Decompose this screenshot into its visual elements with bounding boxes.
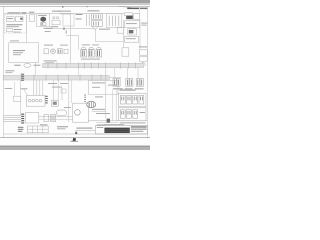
junction dot node A [63, 28, 65, 30]
bottom bus wires right [88, 120, 147, 122]
breaker CB1 upper box [125, 13, 133, 16]
relay K2 title [88, 10, 100, 11]
relay bank feed wires [34, 80, 43, 95]
battery cell A2 [127, 95, 132, 104]
rocker switch S2 [15, 17, 23, 22]
center area note rows [48, 83, 57, 84]
breaker CB1 dark body [126, 16, 133, 20]
breaker CB1 lower box [124, 21, 139, 28]
small module left of fuse [117, 27, 124, 33]
note text above operator panel [8, 12, 21, 13]
sheet bottom border [0, 137, 150, 139]
text rows near generator [95, 96, 103, 97]
center module text row1 [92, 82, 105, 83]
junction box bottom left [25, 113, 38, 123]
battery cell A1 [120, 95, 125, 104]
center vertical wires [53, 80, 71, 122]
ECM text line 1 [13, 50, 25, 51]
relay K2 label rows [76, 14, 83, 15]
key switch S1 [6, 17, 14, 22]
solenoid labels above [82, 44, 90, 45]
bottom bus wires left [4, 115, 21, 121]
right mid module box [122, 48, 129, 56]
ground lug [107, 119, 110, 123]
note text right of breaker [141, 23, 147, 24]
note text above lower harness [5, 70, 14, 71]
border zone tick A [62, 6, 64, 8]
panel drop wire [26, 15, 28, 43]
indicator lamp DS1 [20, 18, 22, 20]
panel text row 3 [14, 29, 22, 30]
title block right text rows [131, 126, 147, 127]
right sensor symbol [141, 63, 146, 66]
leader line [24, 90, 28, 96]
wire to solenoids [95, 41, 122, 43]
harness band lower [4, 75, 110, 80]
note text bottom center-left [57, 126, 68, 127]
solenoid L3 [96, 49, 102, 57]
panel text row 4 [13, 31, 21, 34]
battery box lower [119, 108, 146, 121]
solenoid caption [81, 59, 100, 60]
dark tick bottom center [75, 132, 77, 134]
leader note text [20, 88, 27, 89]
disconnect switch S4 [29, 15, 34, 22]
bottom connector dark dashes [21, 114, 24, 124]
sheet left border [2, 6, 4, 137]
gauge cluster label below [44, 60, 57, 61]
right header drop wire [139, 6, 141, 13]
breaker CB1 side box [134, 14, 140, 20]
left stub wire [14, 82, 16, 96]
relay bank socket 3 [36, 99, 39, 102]
instrument box top center [63, 14, 74, 26]
panel text row 2 [6, 26, 19, 27]
gauge cluster label above [44, 45, 53, 46]
center module outline [88, 80, 118, 94]
lamp module left [14, 96, 21, 101]
wire mid horizontal y35 [66, 35, 79, 37]
long vertical wire center [70, 14, 72, 63]
relay bank socket 2 [32, 99, 35, 102]
battery feed wire 2 [115, 90, 117, 121]
note above ECM [10, 40, 19, 41]
harness band upper ticks [48, 62, 135, 68]
resistor bank R2 pair [126, 79, 133, 87]
label plate under fuse [124, 36, 138, 42]
panel text row 1 [6, 24, 22, 25]
generator G1 oval [87, 101, 96, 107]
bottom-left stacked note [18, 127, 24, 132]
center riser right [105, 68, 107, 118]
harness band upper [43, 63, 144, 67]
gauge cluster item 3 [58, 49, 63, 54]
starter motor M1 box [37, 14, 50, 27]
right sensor block lower [140, 56, 148, 61]
border note text left [5, 88, 13, 89]
right drop wire A [123, 20, 125, 47]
relay K2 coil frame [86, 14, 88, 26]
wire label mid [99, 29, 110, 30]
gauge cluster item 4 [64, 49, 68, 53]
note text top center row2 [60, 13, 71, 14]
revision table caption [40, 124, 48, 125]
sensor column dashes [84, 95, 86, 103]
starter motor M1 top text [38, 15, 47, 16]
diode module D1 [51, 100, 58, 106]
harness lower connector dashes [21, 74, 24, 81]
battery cell B2 [127, 110, 132, 118]
wire from lower harness to right [109, 76, 121, 78]
relay bank socket 4 [39, 99, 42, 102]
revision table [27, 126, 48, 133]
starter motor M1 brush marks [40, 23, 46, 26]
toggle switch S3 [6, 29, 12, 32]
resistor bank caption [113, 88, 123, 89]
sheet header text top right [127, 8, 139, 10]
filter module F2 [44, 115, 48, 122]
left riser wire [20, 80, 22, 115]
tick pair below node A [66, 30, 67, 33]
ECM module box [9, 43, 39, 63]
solenoid L2 [88, 49, 94, 57]
ECM text line 2 [13, 52, 23, 53]
top horizontal bus wire [4, 13, 124, 15]
resistor bank feed wires [114, 68, 116, 79]
battery cell A4 [139, 95, 144, 104]
pump motor circle [75, 110, 81, 116]
fold mark logo below border [72, 138, 76, 142]
battery cell A3 [133, 95, 138, 104]
title block left text [97, 125, 106, 126]
scanner bezel bottom [0, 146, 150, 150]
sender row label [14, 65, 20, 66]
bottom bus wires mid [39, 116, 73, 118]
scanner bezel top [0, 0, 150, 3]
sheet right border [146, 6, 148, 137]
relay bank box [26, 95, 45, 106]
contactor K1 body [52, 20, 60, 25]
gauge cluster item 2 ring [51, 49, 56, 54]
rounded module [56, 110, 66, 116]
sender gauge symbol [24, 64, 31, 68]
wire coil L1 drop [78, 68, 80, 76]
resistor bank R1 pair [113, 79, 120, 87]
operator panel J1 dashed outline [5, 15, 27, 33]
title block dark strip [104, 128, 129, 133]
battery feed wire 1 [112, 90, 114, 121]
relay bank connector dashes [45, 96, 48, 104]
battery caption [120, 90, 136, 91]
sheet inner bottom rule [3, 133, 147, 135]
relay K2 converge wires [92, 26, 95, 29]
note text bottom center [76, 128, 92, 129]
filter module F3 [51, 115, 56, 122]
center module text row2 [108, 85, 117, 86]
relay bank socket 1 [28, 99, 31, 102]
label above disconnect switch [29, 12, 35, 13]
ECM text line 3 [13, 54, 21, 55]
starter motor M1 armature [40, 17, 46, 22]
starter text below [44, 28, 53, 29]
label above contactor [52, 11, 61, 12]
solenoid L1 [81, 49, 87, 57]
center module text row3 [92, 87, 100, 88]
fuse F1 [128, 29, 137, 35]
right sensor block upper [140, 50, 148, 55]
resistor bank R3 pair [136, 79, 143, 87]
title block frame [96, 125, 148, 134]
contactor K1 label [51, 26, 59, 27]
note text top center row1 [58, 11, 71, 12]
border zone tick B [87, 6, 88, 7]
battery lower text [140, 112, 145, 113]
wire starter to node A [46, 28, 95, 30]
terminal strip TB1 [107, 14, 122, 28]
vertical wire x95 [94, 29, 96, 42]
relay K2 contact box lower [91, 21, 102, 27]
vertical wire x78 [78, 36, 80, 50]
ECM branch wire [35, 62, 37, 75]
gauge cluster item 1 [44, 49, 48, 54]
battery box upper [119, 93, 146, 107]
battery cell B3 [133, 110, 138, 118]
right drop wire B [139, 20, 141, 50]
harness band lower ticks [34, 75, 101, 81]
sensor box center [61, 89, 66, 93]
relay K2 contact box upper [91, 14, 102, 20]
battery bottom caption [120, 122, 146, 123]
sender row text [34, 65, 41, 66]
text right of diode module [64, 107, 71, 108]
contactor K1 contacts [53, 17, 55, 19]
right mid module text [139, 46, 147, 47]
title block upper caption [104, 124, 124, 125]
battery cell B1 [120, 110, 125, 118]
sheet top border [0, 5, 150, 7]
pump assembly box [73, 103, 89, 122]
